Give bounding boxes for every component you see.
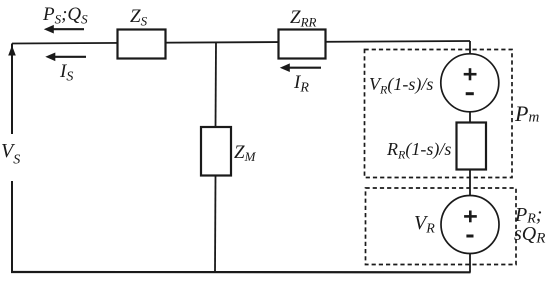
svg-text:VR(1-s)/s: VR(1-s)/s xyxy=(369,74,433,97)
svg-text:IR: IR xyxy=(293,72,309,96)
svg-text:ZRR: ZRR xyxy=(290,7,317,30)
svg-text:Pm: Pm xyxy=(514,101,539,126)
svg-text:sQR: sQR xyxy=(514,223,545,247)
svg-text:ZS: ZS xyxy=(130,6,148,29)
svg-text:IS: IS xyxy=(59,61,73,85)
svg-text:ZM: ZM xyxy=(234,142,257,164)
svg-text:VR: VR xyxy=(414,212,435,237)
svg-text:PS;QS: PS;QS xyxy=(42,4,88,27)
svg-text:VS: VS xyxy=(1,140,20,168)
svg-text:RR(1-s)/s: RR(1-s)/s xyxy=(386,139,451,162)
